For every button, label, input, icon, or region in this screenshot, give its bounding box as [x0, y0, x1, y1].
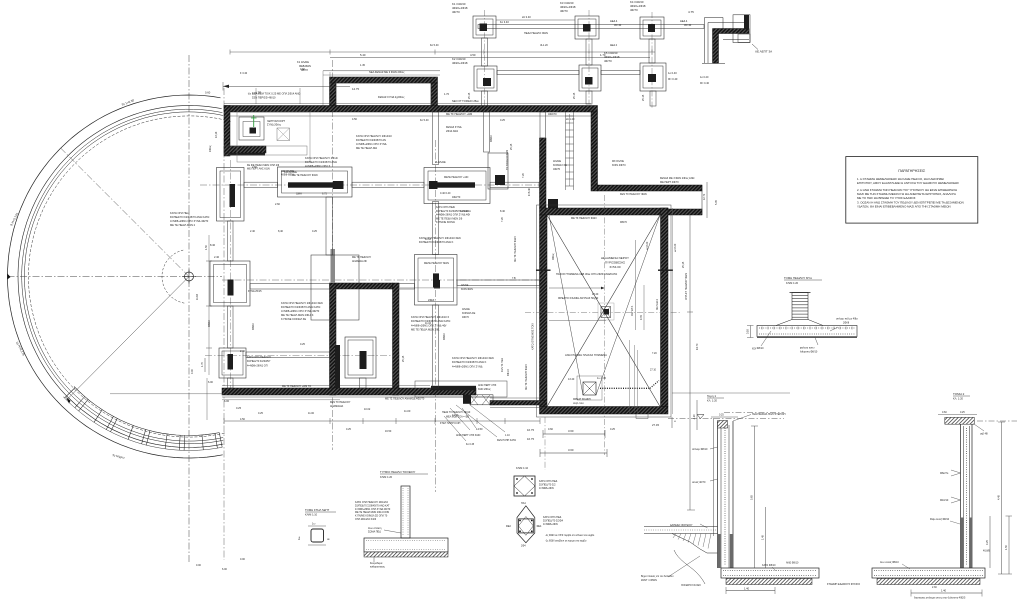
rebar labels left of wall — [692, 447, 718, 451]
svg-text:ΦΡΕΑΤ ΣΚΑΦΗ: ΦΡΕΑΤ ΣΚΑΦΗ — [573, 398, 591, 401]
tank sump column — [577, 376, 602, 400]
dim chain below pit 1 — [543, 429, 605, 438]
svg-text:27.45: 27.45 — [652, 423, 659, 427]
grid line horizontal y=280 — [222, 279, 545, 281]
svg-text:ΦΡΕΑΤΙΟ ΣΚΑΦΗ ΑΝΤΛΙΑΣ 50χ50: ΦΡΕΑΤΙΟ ΣΚΑΦΗ ΑΝΤΛΙΑΣ 50χ50 — [558, 296, 599, 300]
svg-text:Ανω σεναζ Φ8/10: Ανω σεναζ Φ8/10 — [880, 561, 899, 564]
grid centerline top footing col 2 — [588, 10, 590, 104]
svg-text:ΙΔ 1.20: ΙΔ 1.20 — [540, 44, 548, 47]
svg-text:ΖΩΝΤ / ΛΙΘΩΝ: ΖΩΝΤ / ΛΙΘΩΝ — [641, 579, 657, 582]
section 2 lean concrete — [877, 579, 980, 585]
svg-text:0.25: 0.25 — [610, 428, 615, 431]
svg-text:σεναζ 40/70: σεναζ 40/70 — [692, 481, 706, 484]
west arrowhead — [7, 274, 10, 280]
curved wall: inner dashed arc — [28, 116, 230, 437]
section 2 level line — [977, 420, 1017, 422]
thin line above bottom wall — [222, 385, 430, 387]
column label above T1 — [452, 2, 468, 14]
svg-text:Σο 0.45: Σο 0.45 — [466, 443, 475, 446]
curved wall: fourth arc — [24, 112, 223, 441]
svg-text:οπλισμ πεδ με 4Φα: οπλισμ πεδ με 4Φα — [836, 318, 858, 321]
svg-text:10.02: 10.02 — [364, 408, 371, 411]
svg-text:4=ΝΦ8+2ΦΝ1 ΟΠΛ Σ: 4=ΝΦ8+2ΦΝ1 ΟΠΛ Σ — [305, 164, 331, 168]
svg-text:ΚΛΙΜ 1:20: ΚΛΙΜ 1:20 — [380, 475, 393, 479]
corner strip footing with cross marks — [470, 395, 493, 405]
svg-text:Φ8α/7ο: Φ8α/7ο — [940, 472, 949, 475]
tank text: sump note — [558, 293, 599, 300]
section 2 cap dims — [938, 411, 977, 415]
corner wall detail (ΛΕΠΤ) outline — [702, 18, 749, 64]
T footing base — [364, 488, 448, 552]
datum line extending left — [110, 393, 222, 395]
svg-text:ΣΩΜΑ ΠΕΔ: ΣΩΜΑ ΠΕΔ — [368, 531, 381, 534]
upper wing right wall — [431, 83, 438, 106]
svg-text:2.40: 2.40 — [250, 230, 255, 233]
dim texts between row2 and wall — [468, 92, 645, 101]
svg-text:2.60: 2.60 — [275, 203, 280, 206]
section 1 level symbol — [697, 415, 704, 419]
svg-text:1ο 0.40: 1ο 0.40 — [668, 71, 677, 75]
leader diagonals bottom center — [444, 405, 505, 441]
svg-text:4.75: 4.75 — [688, 10, 694, 14]
svg-text:4Φ/70: 4Φ/70 — [553, 167, 561, 171]
svg-text:ΣΕΝΑΖ ΣΥΝΔ 2χ2Φ/ος: ΣΕΝΑΖ ΣΥΝΔ 2χ2Φ/ος — [378, 95, 405, 99]
svg-text:Σα 5.40: Σα 5.40 — [430, 44, 439, 47]
svg-text:1.70: 1.70 — [201, 362, 204, 367]
svg-text:0.25: 0.25 — [960, 411, 965, 414]
tank text: label center — [601, 256, 629, 269]
strip F13 to bottom wall — [228, 378, 234, 388]
svg-text:2Φ14 ΑΝΩ: 2Φ14 ΑΝΩ — [446, 130, 458, 133]
svg-text:Σο 3.40: Σο 3.40 — [500, 20, 509, 24]
svg-text:ΜΕ ΤΣ ΠΕΔΙΛΟΥ ΦΩΝ: ΜΕ ΤΣ ΠΕΔΙΛΟΥ ΦΩΝ — [514, 236, 517, 262]
footing F7 — [217, 168, 245, 222]
svg-text:8,40: 8,40 — [278, 230, 283, 233]
section 1 left dim — [693, 400, 697, 430]
svg-text:Φιλμ σεναζ Φ8/10: Φιλμ σεναζ Φ8/10 — [930, 518, 950, 521]
column label above T3 — [630, 0, 646, 12]
wing texts — [352, 70, 450, 99]
tank rotated texts left wall — [525, 323, 535, 390]
svg-text:ΚΑΤΩ ΟΠΛ ΠΕΔΙ: ΚΑΤΩ ΟΠΛ ΠΕΔΙ — [170, 211, 190, 215]
svg-text:6.00: 6.00 — [222, 568, 227, 571]
svg-text:ΦΕ2: ΦΕ2 — [506, 525, 512, 528]
bottom dim chain under wall — [224, 418, 540, 424]
svg-text:40,8/Β: 40,8/Β — [983, 550, 990, 553]
svg-text:ΜΕ ΠΕΡΤ 4Φ/70: ΜΕ ΠΕΡΤ 4Φ/70 — [660, 181, 679, 184]
section 1 corbel hatch — [673, 534, 711, 549]
section 1 wall — [718, 421, 734, 568]
svg-text:ΚΛΙΜ 1:10: ΚΛΙΜ 1:10 — [305, 513, 318, 517]
grid line horizontal y=355.5 — [205, 355, 400, 357]
tie beams row2 to wall — [482, 91, 488, 106]
svg-text:ΠΥΡΟΣΒΕΣΗΣ: ΠΥΡΟΣΒΕΣΗΣ — [605, 261, 625, 265]
corner detail leader — [752, 44, 758, 50]
svg-text:ΜΕ ΤΕ ΠΕΔΙΛ ΜΩ: ΜΕ ΤΕ ΠΕΔΙΛ ΜΩ — [356, 146, 377, 150]
pedestal leader left — [752, 331, 771, 350]
svg-text:ΔΕΔ 4: ΔΕΔ 4 — [610, 44, 618, 47]
pit diagonal brace 2 — [547, 215, 660, 407]
svg-text:1.50: 1.50 — [1005, 545, 1008, 550]
svg-text:ΦΕ4: ΦΕ4 — [537, 525, 543, 528]
svg-text:Σ0/ΠΕΔ/70 Σ/2Φ45/70 ΑΝΩ ΚΑΤΩ: Σ0/ΠΕΔ/70 Σ/2Φ45/70 ΑΝΩ ΚΑΤΩ — [411, 319, 450, 323]
svg-text:25.15: 25.15 — [573, 92, 576, 99]
datum line above section 1 — [672, 392, 790, 394]
svg-text:ΓΕΩΥΦΑΣΜΑ ΠΟΛΥΣΤΕΡΙΝΗ: ΓΕΩΥΦΑΣΜΑ ΠΟΛΥΣΤΕΡΙΝΗ — [752, 413, 786, 416]
svg-text:ΜΕ ΤΕ ΠΕΔΙΛ ΜΩΝ 2: ΜΕ ΤΕ ΠΕΔΙΛ ΜΩΝ 2 — [170, 223, 196, 227]
svg-text:2Φ/Φ: 2Φ/Φ — [843, 322, 849, 325]
footing F6 — [640, 63, 666, 91]
svg-text:Σο 6.40: Σο 6.40 — [460, 210, 469, 213]
pit internal dim lines — [631, 240, 644, 330]
svg-text:14.75: 14.75 — [352, 87, 359, 91]
svg-text:25.15: 25.15 — [468, 92, 471, 99]
column label above T2 — [560, 1, 576, 13]
pit dim line to column — [549, 287, 605, 290]
second outline line below wall left — [222, 399, 340, 401]
svg-text:0.25: 0.25 — [346, 428, 351, 431]
west wall jog bar — [224, 146, 266, 153]
svg-text:ΤΥΠΙΚΟ ΠΕΔΙΛΟ ΤΟΙΧΕΙΟΥ: ΤΥΠΙΚΟ ΠΕΔΙΛΟ ΤΟΙΧΕΙΟΥ — [380, 470, 416, 474]
corner small pad with X — [277, 128, 290, 141]
grid line vertical x=230.5 — [230, 160, 232, 390]
stacked dims left of chains — [527, 428, 534, 441]
svg-text:ΣΕΝ ΤΣ ΠΕΔΙΛΟΥ: ΣΕΝ ΤΣ ΠΕΔΙΛΟΥ — [330, 401, 351, 404]
svg-text:0.25: 0.25 — [500, 119, 505, 122]
svg-text:4=ΝΦ8+2ΦΝ1 ΟΠΛ ΣΥΝΔ 4Φ/: 4=ΝΦ8+2ΦΝ1 ΟΠΛ ΣΥΝΔ 4Φ/ — [436, 214, 470, 217]
svg-text:ΜΕ ΤΣ ΠΕΔΙΛΟΥ +ΩΜ: ΜΕ ΤΣ ΠΕΔΙΛΟΥ +ΩΜ — [446, 112, 472, 116]
svg-text:ΩΛ/ΩΕ: ΩΛ/ΩΕ — [553, 159, 561, 163]
labels second row — [452, 51, 678, 81]
svg-text:Σ0/ΠΕΔ/70 Σ/2Φ4: Σ0/ΠΕΔ/70 Σ/2Φ4 — [543, 520, 564, 523]
footing F5 — [579, 65, 601, 91]
tank internal rotated dims — [552, 241, 659, 310]
svg-text:0.25: 0.25 — [719, 414, 724, 417]
svg-text:Κ ΠΝ/ΝΕ ΚΟΙΝΩΛ ΣΕ: Κ ΠΝ/ΝΕ ΚΟΙΝΩΛ ΣΕ — [281, 317, 306, 321]
curved wall: third arc — [22, 109, 224, 444]
svg-text:30/ 40: 30/ 40 — [684, 23, 692, 27]
F11 dims — [425, 238, 516, 325]
svg-text:11.63: 11.63 — [196, 293, 199, 300]
svg-text:ΚΑΤΩ ΟΠΛ ΠΕΔΙΛΟΥ 2Φ14/10 ΣΕΝ: ΚΑΤΩ ΟΠΛ ΠΕΔΙΛΟΥ 2Φ14/10 ΣΕΝ — [419, 236, 461, 240]
svg-text:Φ= 0.40: Φ= 0.40 — [700, 82, 710, 85]
section 1 excavation line — [713, 418, 715, 536]
svg-text:ΚΑΤΩ ΟΠΛ ΠΕΔ: ΚΑΤΩ ΟΠΛ ΠΕΔ — [539, 480, 558, 483]
svg-text:ΚΑΤΩ ΟΠΛΙΣΜΟΣ ΤΟΙΧ: ΚΑΤΩ ΟΠΛΙΣΜΟΣ ΤΟΙΧ — [532, 323, 535, 350]
thin strip above pit approach wall — [540, 112, 546, 138]
T footing leader — [368, 527, 401, 534]
svg-text:4Φ/ος: 4Φ/ος — [552, 253, 555, 260]
grid line vertical x=332.7 — [332, 60, 334, 450]
jog outline extension — [224, 146, 307, 155]
strip F10 to interior wall — [250, 284, 330, 290]
svg-text:11.00: 11.00 — [308, 412, 315, 415]
notes body — [857, 177, 964, 209]
svg-text:ΜΕ ΤΣ ΠΕΔΙΛΟΥ ΦΩΝ: ΜΕ ΤΣ ΠΕΔΙΛΟΥ ΦΩΝ — [571, 217, 597, 220]
footing F8 inner label — [275, 171, 327, 206]
corner footing cluster outline — [237, 112, 310, 162]
svg-text:11.00: 11.00 — [404, 409, 411, 413]
geotextile label — [733, 413, 786, 421]
svg-text:Κ2α ΩΛ/ΩΕ: Κ2α ΩΛ/ΩΕ — [284, 171, 297, 174]
corner cluster leader text — [267, 120, 286, 127]
svg-text:1.70: 1.70 — [600, 53, 606, 57]
footing F13 — [219, 348, 246, 378]
footing T1 — [473, 16, 496, 38]
section 2 title — [953, 392, 970, 401]
pedestal flares — [776, 320, 792, 326]
svg-text:Σο 5.40: Σο 5.40 — [420, 119, 429, 122]
svg-text:1ω: 1ω — [312, 523, 315, 526]
svg-text:ΔΑΠΕΔΟ ΙΣΟΓΕΙΟΥ: ΔΑΠΕΔΟ ΙΣΟΓΕΙΟΥ — [670, 524, 693, 527]
svg-text:Φ8/10: Φ8/10 — [490, 135, 493, 142]
pit centerline horizontal — [525, 311, 680, 313]
svg-text:ΜΕΓΕΘ 4: ΜΕΓΕΘ 4 — [656, 299, 659, 310]
footing F14 — [345, 337, 376, 378]
svg-text:ΑΝΑΜΩΔΙΑ: ΑΝΑΜΩΔΙΑ — [330, 405, 343, 408]
svg-text:1ω: 1ω — [298, 537, 301, 540]
svg-text:ΚΛΙΜ 1:20: ΚΛΙΜ 1:20 — [786, 281, 799, 285]
bottom perimeter wall — [222, 388, 476, 395]
dim extension x=207 — [206, 378, 208, 420]
svg-text:ΠΑΡΑΤΗΡΗΣΕΙΣ: ΠΑΡΑΤΗΡΗΣΕΙΣ — [898, 169, 926, 173]
corner detail right box — [733, 15, 750, 43]
svg-text:4Φ/70: 4Φ/70 — [560, 9, 568, 13]
east dim chain — [703, 182, 718, 218]
svg-text:ΕΠΙΤΟΠΟΥ, ΑΦΟΥ ΕΞΑΝΤΛΗΘΕΙ Η ΑΝ: ΕΠΙΤΟΠΟΥ, ΑΦΟΥ ΕΞΑΝΤΛΗΘΕΙ Η ΑΝΤΟΧΗ ΤΟΥ Ε… — [857, 181, 959, 185]
svg-text:6.75: 6.75 — [322, 193, 327, 196]
svg-text:Σ0/ΠΕΔ/70 Σ/2Φ45/70 ΑΝ: Σ0/ΠΕΔ/70 Σ/2Φ45/70 ΑΝ — [356, 138, 386, 142]
green revision mark — [253, 115, 255, 127]
svg-text:Βημα πλακας επι του δαπεδου: Βημα πλακας επι του δαπεδου — [641, 575, 674, 578]
svg-text:ΚΑΤΩ ΟΠΛ ΠΕΔΙΛΟΥ 2Φ14/10 ΣΕΝ: ΚΑΤΩ ΟΠΛ ΠΕΔΙΛΟΥ 2Φ14/10 ΣΕΝ — [281, 301, 323, 305]
upper wing inner outline — [336, 83, 431, 106]
strip F9-pit — [490, 182, 539, 187]
footing F4 — [474, 66, 497, 91]
svg-text:ΑΝΩ ΠΕΡΤ ΛΗΣ ΚΩΝ: ΑΝΩ ΠΕΡΤ ΛΗΣ ΚΩΝ — [456, 434, 480, 437]
svg-text:1.70: 1.70 — [444, 92, 450, 96]
svg-text:Φ8/10: Φ8/10 — [208, 320, 211, 327]
pit steep diagonal left — [549, 215, 583, 395]
svg-text:Φ8/10: Φ8/10 — [507, 369, 510, 376]
svg-text:25,15: 25,15 — [402, 355, 405, 362]
svg-text:4.45: 4.45 — [998, 495, 1001, 500]
notes box frame — [846, 157, 978, 224]
svg-text:ΤΟΜΗ ΠΕΔΙΛΟΥ ΜΥΞ: ΤΟΜΗ ΠΕΔΙΛΟΥ ΜΥΞ — [784, 276, 812, 280]
svg-text:14.50: 14.50 — [452, 414, 459, 417]
svg-text:4=ΝΦ8+2ΦΝ1 ΟΠΛ ΣΥΝΔ: 4=ΝΦ8+2ΦΝ1 ΟΠΛ ΣΥΝΔ — [452, 364, 483, 368]
strip F8-F9 — [352, 182, 424, 187]
svg-text:4=ΝΦ8+2ΦΝ1 ΟΠΛ ΣΥΝΔ 4Φ/70: 4=ΝΦ8+2ΦΝ1 ΟΠΛ ΣΥΝΔ 4Φ/70 — [281, 309, 320, 313]
thin line below bottom wall — [222, 396, 492, 398]
strip F14 to bottom wall — [360, 378, 367, 388]
curved wall: second arc — [18, 106, 223, 448]
pit outer dim verticals right — [672, 208, 674, 414]
section 2 top cap — [945, 417, 975, 424]
pit left wall — [540, 215, 548, 407]
pedestal detail title — [784, 276, 822, 285]
svg-text:-1ς ΦΩΝ σε ΧΨΖ περιβλ στο εθν: -1ς ΦΩΝ σε ΧΨΖ περιβλ στο εθνικο του κομ… — [545, 534, 595, 537]
svg-text:ΜΕ ΤΕ ΠΕΔΙΛ ΜΩΝ 2Φ: ΜΕ ΤΕ ΠΕΔΙΛ ΜΩΝ 2Φ — [436, 217, 462, 220]
pit mid horizontal line — [549, 320, 606, 322]
tie beam strip second row — [497, 71, 579, 75]
svg-text:1.10: 1.10 — [505, 434, 510, 437]
svg-text:ΜΕΓΕ ΠΕΔΙΛΟΥ ΜΩΝ: ΜΕΓΕ ΠΕΔΙΛΟΥ ΜΩΝ — [424, 262, 449, 265]
svg-text:καθαριοτητας: καθαριοτητας — [370, 566, 386, 569]
pedestal column ladder — [790, 293, 811, 320]
svg-text:ΚΑΤΩ ΟΠΛ ΠΕΔΙΛΟΥ 2Φ14/10: ΚΑΤΩ ΟΠΛ ΠΕΔΙΛΟΥ 2Φ14/10 — [356, 134, 392, 138]
svg-text:0.25: 0.25 — [986, 540, 989, 545]
svg-text:2ΦΕΣ: 2ΦΕΣ — [428, 299, 435, 302]
svg-text:ΣΕΝΑΖ ΜΕ 3 ΦΩΝ 2Φ/ος ΑΝΩ: ΣΕΝΑΖ ΜΕ 3 ΦΩΝ 2Φ/ος ΑΝΩ — [660, 177, 695, 180]
svg-text:Κ ΠΝ/ΝΕ ΚΟΙΝΩ: Κ ΠΝ/ΝΕ ΚΟΙΝΩ — [436, 221, 455, 224]
svg-text:ΜΕ ΤΣ ΠΕΔΙΛΟΥ: ΜΕ ΤΣ ΠΕΔΙΛΟΥ — [352, 256, 371, 259]
pit left rotated label — [553, 159, 567, 171]
footing T2 — [575, 16, 599, 39]
column block at pit approach — [548, 199, 558, 208]
dim chain below pit 2 — [540, 448, 607, 457]
west wall upper — [224, 106, 230, 157]
svg-text:ΤΟΜΗ ΣΤΗΛ ΛΕΠΤ: ΤΟΜΗ ΣΤΗΛ ΛΕΠΤ — [305, 508, 330, 512]
pit outer thin outline — [537, 205, 672, 417]
svg-text:ΜΕ ΠΕΡΤ ΛΗΣ ΚΩΝ: ΜΕ ΠΕΡΤ ΛΗΣ ΚΩΝ — [247, 168, 270, 171]
svg-text:ΚΟΙΝ ΦΩΝ: ΚΟΙΝ ΦΩΝ — [461, 288, 473, 291]
svg-text:ΚΟΙΝ 4Φ/70: ΚΟΙΝ 4Φ/70 — [612, 164, 626, 167]
svg-text:ΣΕΝ ΠΕΡΙΣΦ 4Φ/10: ΣΕΝ ΠΕΡΙΣΦ 4Φ/10 — [252, 96, 276, 100]
svg-text:ΝΕΑ ΣΕΝΑΖ ΜΕ 3 ΦΩΝ 2Φ/ος: ΝΕΑ ΣΕΝΑΖ ΜΕ 3 ΦΩΝ 2Φ/ος — [369, 70, 405, 74]
svg-text:ΑΝΩ ΠΕΡΤ ΛΗΣ: ΑΝΩ ΠΕΡΤ ΛΗΣ — [478, 384, 497, 387]
svg-text:ΚΛΙΜ 1:10: ΚΛΙΜ 1:10 — [516, 466, 529, 470]
section 2 rebar labels — [940, 470, 961, 503]
small footing below wall x=495 — [488, 153, 508, 189]
tie beam T2-F5 — [586, 39, 592, 65]
wall joint tick right — [658, 270, 673, 271]
thin line below top wall — [224, 115, 591, 117]
svg-text:ΚΑΤΩ ΟΠΛ ΠΕΔΙΛΟΥ 2Φ14/10 ΣΕΝ: ΚΑΤΩ ΟΠΛ ΠΕΔΙΛΟΥ 2Φ14/10 ΣΕΝ — [452, 356, 494, 360]
svg-text:Φ8/10: Φ8/10 — [443, 333, 446, 340]
svg-text:Κ1 ΩΛ/ΩΕ: Κ1 ΩΛ/ΩΕ — [297, 60, 309, 64]
svg-text:8.40: 8.40 — [500, 210, 505, 213]
strip F11 to bottom wall — [433, 305, 439, 388]
svg-text:Σ=54.00: Σ=54.00 — [609, 265, 620, 269]
section 2 wall rebar dim — [930, 518, 960, 524]
svg-text:4=ΝΦ8+2ΦΝ1 ΟΠΛ ΣΥΝΔ 4Φ/70: 4=ΝΦ8+2ΦΝ1 ΟΠΛ ΣΥΝΔ 4Φ/70 — [170, 219, 209, 223]
svg-text:Σ 3.40: Σ 3.40 — [240, 72, 248, 75]
svg-text:φαλτσο κατω: φαλτσο κατω — [800, 347, 815, 350]
svg-text:ΛΕ ΛΕΠΤ 3Α: ΛΕ ΛΕΠΤ 3Α — [755, 50, 772, 54]
curved retaining wall: outer arc — [8, 95, 223, 458]
svg-text:12.71: 12.71 — [703, 193, 706, 200]
section 1 vertical dim 2 — [762, 507, 766, 568]
column detail CL1 — [298, 523, 331, 546]
svg-text:8.40: 8.40 — [210, 243, 216, 247]
svg-text:ΚΑΤΩ ΟΠΛ ΠΕΔΙ: ΚΑΤΩ ΟΠΛ ΠΕΔΙ — [436, 206, 455, 209]
radial dash-dot line: horizontal west — [8, 276, 223, 278]
svg-text:Σ/45: Σ/45 — [640, 315, 643, 320]
strip F11 to pit — [457, 280, 540, 286]
stair steps along arc — [63, 386, 222, 450]
jog lower band — [229, 153, 265, 156]
rotated dims left of cluster — [209, 131, 218, 152]
svg-text:ω=3.20: ω=3.20 — [646, 241, 649, 250]
svg-text:7.Β: 7.Β — [512, 277, 516, 280]
svg-text:6.00: 6.00 — [224, 399, 230, 403]
leader cluster bottom — [404, 408, 483, 437]
footing bar above interior wall head — [331, 249, 336, 283]
svg-text:ΚΟΙΝΩΛ ΣΕ: ΚΟΙΝΩΛ ΣΕ — [462, 312, 476, 315]
svg-text:4.50: 4.50 — [240, 418, 245, 421]
footing F9 inner label — [435, 161, 468, 199]
section 2 wall below-grade shading — [961, 518, 973, 569]
rotated dims near pit left lower — [501, 358, 510, 376]
svg-text:ΣΕΝ ΤΣ ΠΕΔΙΛΟΥ ΦΩΝ: ΣΕΝ ΤΣ ΠΕΔΙΛΟΥ ΦΩΝ — [620, 193, 647, 196]
svg-text:2α 3.40: 2α 3.40 — [522, 15, 531, 19]
senaz leader — [710, 479, 718, 481]
arc center circle — [185, 272, 194, 281]
svg-text:0.60: 0.60 — [300, 68, 305, 71]
strip below wall x=483 — [484, 112, 490, 152]
svg-text:ΚΑΤΩ ΟΠΛ ΠΕΔ: ΚΑΤΩ ΟΠΛ ΠΕΔ — [543, 516, 562, 519]
sump dims — [568, 377, 607, 405]
section 1 corbel — [672, 534, 718, 554]
section 2 wall — [961, 422, 973, 568]
dim line left of wing — [223, 82, 350, 91]
svg-text:ΩΜΗ: ΩΜΗ — [296, 193, 302, 196]
radial line: lower-left diagonal — [67, 277, 190, 401]
interior wall top y=286 — [336, 283, 393, 289]
svg-text:4.50: 4.50 — [352, 118, 357, 121]
footing F11 — [415, 255, 458, 306]
footing rebar labels — [762, 562, 799, 572]
section 2 bottom dim — [911, 586, 982, 597]
svg-text:3.60: 3.60 — [568, 448, 574, 452]
section 1 bottom dim — [726, 587, 775, 595]
grid line horizontal y=185 — [200, 184, 539, 186]
svg-text:ΩΛ/ΩΕ: ΩΛ/ΩΕ — [462, 308, 470, 311]
svg-text:4=ΝΦ8+2ΦΝ: 4=ΝΦ8+2ΦΝ — [539, 487, 554, 490]
dash extension below pit left wall — [544, 417, 546, 470]
svg-text:ΑΝΩ ΣΤΑΘΜΗ ΠΛΑΚΑΣ ΠΥΘΜΕΝΑ: ΑΝΩ ΣΤΑΘΜΗ ΠΛΑΚΑΣ ΠΥΘΜΕΝΑ — [565, 353, 607, 357]
texts bottom center cluster — [442, 411, 516, 446]
svg-text:4Φ2/70: 4Φ2/70 — [548, 112, 557, 116]
svg-text:-1ς ΦΩΝ αναβλεπ σε κορμο στο κ: -1ς ΦΩΝ αναβλεπ σε κορμο στο κομβο — [545, 540, 587, 543]
svg-text:4Φ2/70: 4Φ2/70 — [452, 196, 461, 199]
svg-text:ΚΩΝ 2Φ/ος: ΚΩΝ 2Φ/ος — [478, 388, 492, 391]
svg-text:ΚΟΙΝΩΛ ΣΕ: ΚΟΙΝΩΛ ΣΕ — [553, 163, 567, 167]
svg-text:ανηλ ποσ: ανηλ ποσ — [573, 402, 584, 405]
svg-text:ΝΕΟ ΣΤ ΤΟΙΧΕΙΟ 25εκ: ΝΕΟ ΣΤ ΤΟΙΧΕΙΟ 25εκ — [452, 99, 479, 103]
svg-text:ΜΕ ΤΣ ΠΕΔΙΛΟΥ ΦΩΝ: ΜΕ ΤΣ ΠΕΔΙΛΟΥ ΦΩΝ — [525, 364, 528, 390]
svg-text:ΣΕΝ ΤΣ ΠΕΔ: ΣΕΝ ΤΣ ΠΕΔ — [501, 358, 504, 372]
svg-text:0.40 6.40: 0.40 6.40 — [440, 192, 451, 195]
footing F10 — [210, 261, 250, 306]
svg-text:1.45: 1.45 — [762, 535, 765, 540]
svg-text:Σ0/ΠΕΔ/70 Σ/2Φ45/70 ΑΝΩ ΚΑΤΩ: Σ0/ΠΕΔ/70 Σ/2Φ45/70 ΑΝΩ ΚΑΤΩ — [281, 305, 320, 309]
svg-text:2α 1.20: 2α 1.20 — [566, 118, 575, 121]
svg-text:14.50: 14.50 — [476, 427, 483, 431]
svg-text:ΜΕ ΤΕ ΠΕΔΙΛΟΥ ΦΩΝ: ΜΕ ΤΕ ΠΕΔΙΛΟΥ ΦΩΝ — [292, 174, 318, 177]
svg-text:2Φ4: 2Φ4 — [521, 545, 526, 548]
svg-text:ΜΕ ΤΟ ΠΩΣ ΘΑ ΒΡΕΘΕΙ ΤΟ ΥΠΟΣ ΕΔ: ΜΕ ΤΟ ΠΩΣ ΘΑ ΒΡΕΘΕΙ ΤΟ ΥΠΟΣ ΕΔΑΦΟΣ — [857, 196, 916, 200]
pit internal extension lines — [630, 340, 658, 419]
grid line vertical x=224 — [223, 88, 225, 560]
svg-text:5.40: 5.40 — [360, 53, 366, 57]
svg-text:ΜΕΓΕΘ 4: ΜΕΓΕΘ 4 — [631, 305, 634, 316]
footing at interior wall head — [311, 255, 359, 320]
svg-text:ΑΝΑΜΩΔ 2Φ: ΑΝΑΜΩΔ 2Φ — [352, 260, 367, 263]
svg-text:ΤΣ ΤΟΙΧΕΙΟ ΦΩΝ: ΤΣ ΤΟΙΧΕΙΟ ΦΩΝ — [506, 150, 509, 170]
svg-text:30/ 40: 30/ 40 — [614, 23, 622, 27]
